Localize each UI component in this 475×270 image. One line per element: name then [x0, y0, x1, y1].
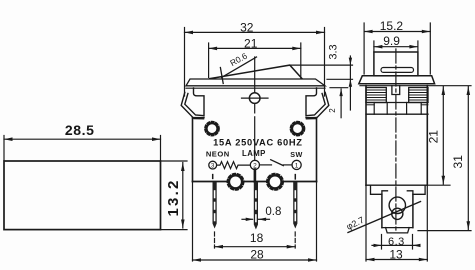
svg-text:3.3: 3.3 [328, 44, 340, 59]
svg-text:LAMP: LAMP [242, 149, 266, 158]
svg-text:13.2: 13.2 [165, 179, 182, 217]
svg-text:32: 32 [240, 21, 254, 35]
svg-text:28.5: 28.5 [65, 122, 95, 138]
svg-text:2: 2 [253, 162, 257, 169]
svg-text:21: 21 [427, 130, 441, 144]
svg-text:18: 18 [250, 231, 264, 245]
svg-text:13: 13 [389, 247, 403, 261]
svg-text:NEON: NEON [206, 149, 230, 158]
svg-text:SW: SW [290, 150, 302, 159]
svg-text:R0.6: R0.6 [228, 51, 249, 69]
svg-text:9.9: 9.9 [383, 34, 400, 48]
svg-text:21: 21 [244, 37, 258, 51]
svg-text:2: 2 [328, 108, 337, 113]
svg-text:0.8: 0.8 [265, 206, 281, 218]
svg-text:28: 28 [250, 248, 264, 262]
svg-text:1: 1 [295, 162, 299, 169]
svg-text:15A 250VAC 60HZ: 15A 250VAC 60HZ [213, 137, 303, 147]
svg-text:31: 31 [451, 155, 465, 169]
svg-text:6.3: 6.3 [388, 236, 405, 248]
svg-text:15.2: 15.2 [380, 19, 404, 33]
